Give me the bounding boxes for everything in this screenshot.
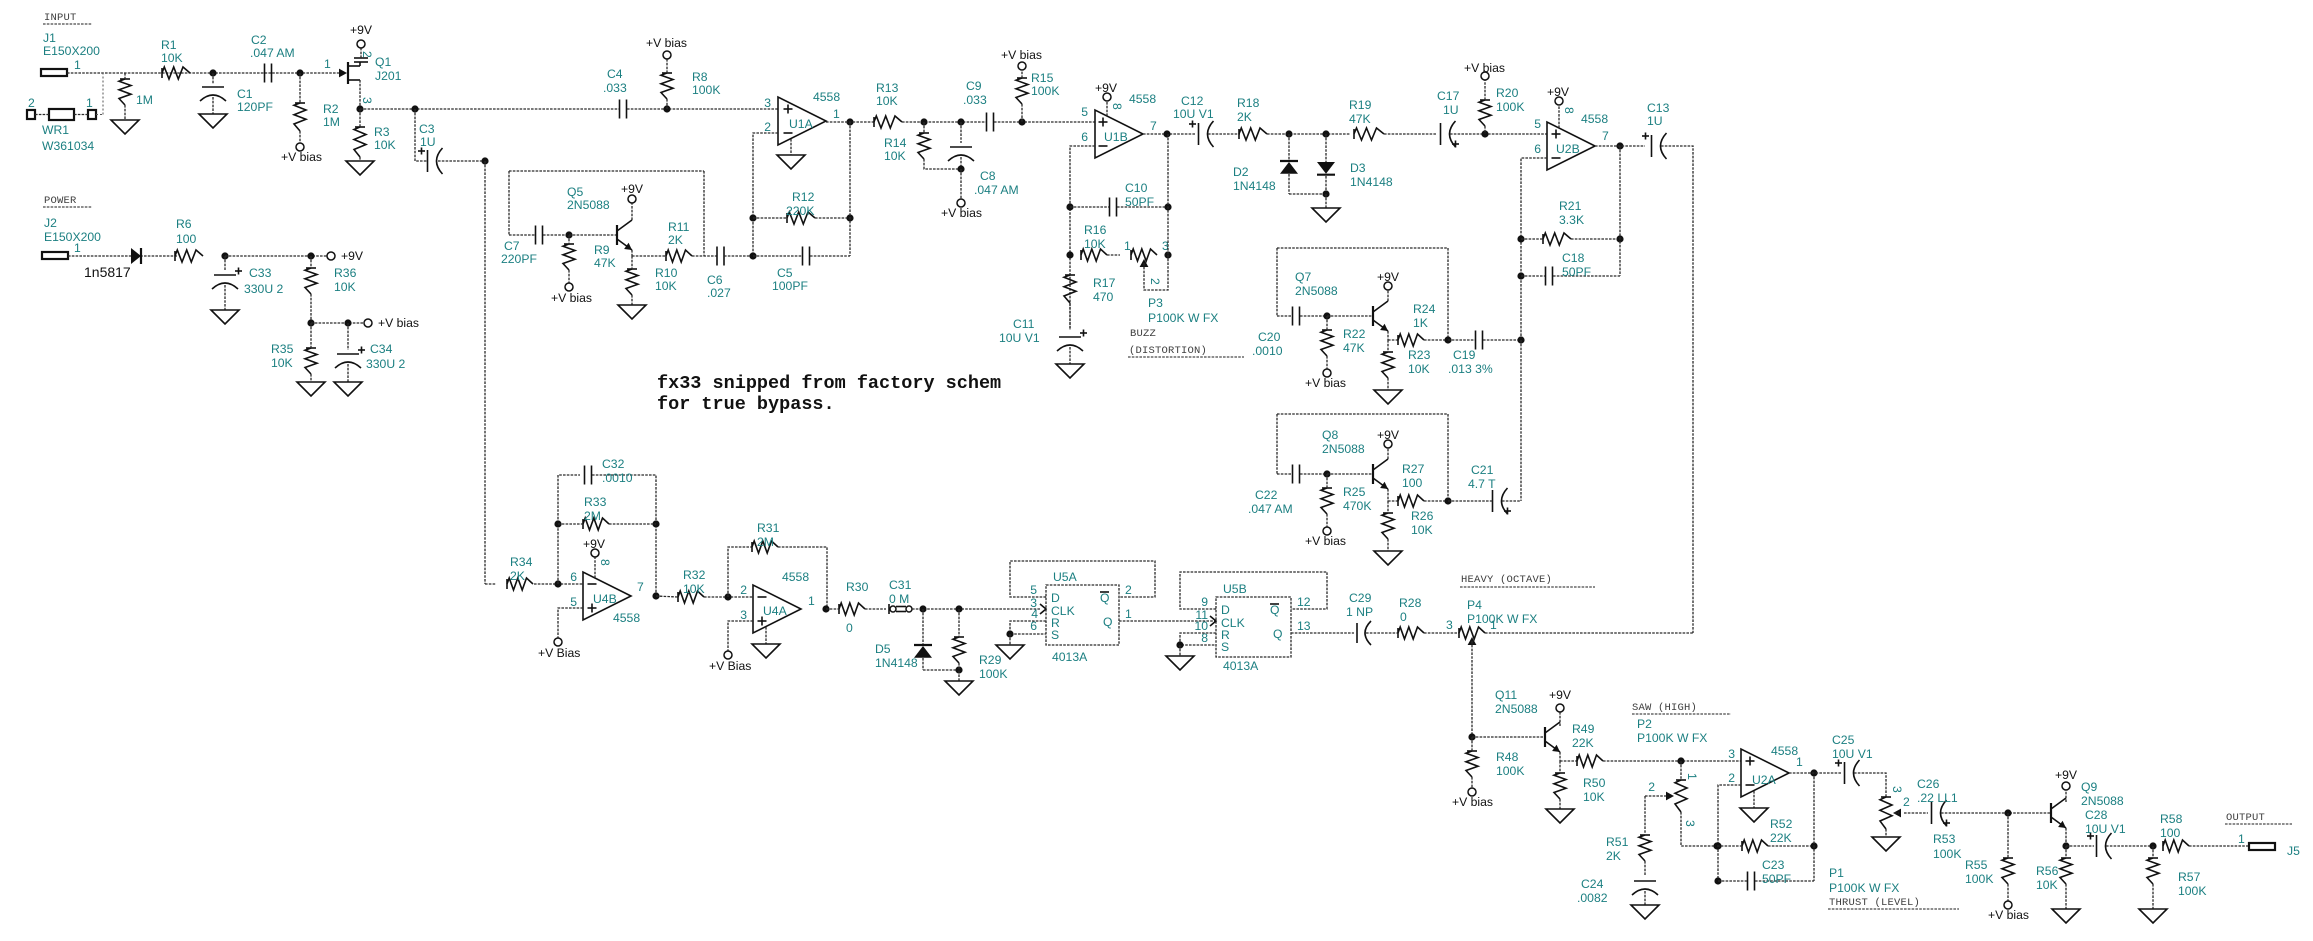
svg-text:+9V: +9V: [583, 537, 606, 551]
svg-text:7: 7: [1150, 119, 1157, 133]
svg-text:C9: C9: [966, 79, 982, 93]
svg-text:3: 3: [1890, 786, 1904, 793]
svg-text:R58: R58: [2160, 812, 2183, 826]
svg-text:3.3K: 3.3K: [1559, 213, 1584, 227]
svg-text:100K: 100K: [692, 83, 720, 97]
svg-text:10K: 10K: [1408, 362, 1430, 376]
svg-text:R2: R2: [323, 102, 339, 116]
svg-text:1n5817: 1n5817: [84, 264, 131, 280]
svg-text:2K: 2K: [1237, 110, 1252, 124]
svg-text:0: 0: [1400, 610, 1407, 624]
svg-text:4558: 4558: [1129, 92, 1156, 106]
svg-text:R29: R29: [979, 653, 1002, 667]
svg-text:+9V: +9V: [1095, 81, 1118, 95]
svg-text:C11: C11: [1013, 317, 1035, 331]
svg-text:C7: C7: [504, 239, 520, 253]
svg-text:R20: R20: [1496, 86, 1519, 100]
svg-text:Q9: Q9: [2081, 780, 2097, 794]
svg-text:for true bypass.: for true bypass.: [657, 394, 835, 415]
svg-text:100K: 100K: [1933, 847, 1961, 861]
svg-text:.22 LL1: .22 LL1: [1917, 791, 1958, 805]
svg-text:P4: P4: [1467, 598, 1482, 612]
svg-text:330U 2: 330U 2: [244, 282, 284, 296]
svg-text:R27: R27: [1402, 462, 1425, 476]
svg-text:1: 1: [86, 96, 93, 110]
svg-text:C8: C8: [980, 169, 996, 183]
svg-text:R34: R34: [510, 555, 533, 569]
svg-text:9: 9: [1201, 595, 1208, 609]
svg-text:+V bias: +V bias: [1001, 48, 1042, 62]
svg-text:1: 1: [1125, 607, 1132, 621]
svg-text:22K: 22K: [1572, 736, 1594, 750]
svg-text:4558: 4558: [813, 90, 840, 104]
svg-text:R8: R8: [692, 70, 708, 84]
svg-text:R3: R3: [374, 125, 390, 139]
svg-text:12: 12: [1297, 595, 1311, 609]
svg-text:U1A: U1A: [789, 117, 814, 131]
svg-text:+V bias: +V bias: [1305, 534, 1346, 548]
svg-text:4558: 4558: [1771, 744, 1798, 758]
svg-text:2: 2: [1648, 780, 1655, 794]
svg-text:10K: 10K: [334, 280, 356, 294]
svg-text:10K: 10K: [683, 582, 705, 596]
svg-text:U4B: U4B: [593, 592, 617, 606]
svg-text:C5: C5: [777, 266, 793, 280]
svg-text:.0010: .0010: [1252, 344, 1283, 358]
svg-text:HEAVY (OCTAVE): HEAVY (OCTAVE): [1461, 574, 1552, 586]
svg-text:R26: R26: [1411, 509, 1434, 523]
svg-text:SAW (HIGH): SAW (HIGH): [1632, 702, 1697, 714]
svg-text:+V Bias: +V Bias: [709, 659, 751, 673]
svg-text:100K: 100K: [1965, 872, 1993, 886]
svg-text:8: 8: [1562, 107, 1576, 114]
svg-text:D2: D2: [1233, 165, 1249, 179]
svg-text:47K: 47K: [1343, 341, 1365, 355]
svg-text:R53: R53: [1933, 832, 1956, 846]
svg-text:10K: 10K: [1583, 790, 1605, 804]
svg-text:47K: 47K: [1349, 112, 1371, 126]
svg-text:1U: 1U: [1443, 103, 1459, 117]
svg-text:C3: C3: [419, 122, 435, 136]
svg-text:P100K W FX: P100K W FX: [1467, 612, 1537, 626]
svg-text:P100K W FX: P100K W FX: [1148, 311, 1218, 325]
svg-text:+9V: +9V: [350, 23, 373, 37]
svg-text:.047 AM: .047 AM: [974, 183, 1019, 197]
svg-text:4558: 4558: [1581, 112, 1608, 126]
svg-text:R56: R56: [2036, 864, 2059, 878]
svg-text:C24: C24: [1581, 877, 1604, 891]
svg-text:10K: 10K: [2036, 878, 2058, 892]
svg-text:C12: C12: [1181, 94, 1204, 108]
svg-text:2: 2: [740, 583, 747, 597]
svg-text:10K: 10K: [161, 51, 183, 65]
svg-text:1N4148: 1N4148: [1350, 175, 1393, 189]
svg-text:10U V1: 10U V1: [999, 331, 1040, 345]
svg-text:fx33 snipped from factory sche: fx33 snipped from factory schem: [657, 373, 1001, 394]
svg-text:J5: J5: [2287, 844, 2300, 858]
svg-text:1M: 1M: [323, 115, 340, 129]
svg-text:C18: C18: [1562, 251, 1585, 265]
svg-text:.033: .033: [963, 93, 987, 107]
svg-text:D: D: [1221, 603, 1230, 617]
svg-text:R57: R57: [2178, 870, 2201, 884]
svg-text:R16: R16: [1084, 223, 1107, 237]
svg-text:+V bias: +V bias: [1464, 61, 1505, 75]
svg-text:THRUST (LEVEL): THRUST (LEVEL): [1829, 897, 1920, 909]
svg-text:2N5088: 2N5088: [2081, 794, 2124, 808]
svg-text:1: 1: [833, 107, 840, 121]
svg-text:220K: 220K: [786, 204, 814, 218]
svg-text:D: D: [1051, 591, 1060, 605]
svg-text:3: 3: [1683, 820, 1697, 827]
svg-text:100: 100: [2160, 826, 2181, 840]
svg-text:U2A: U2A: [1752, 773, 1777, 787]
svg-text:8: 8: [1110, 103, 1124, 110]
svg-text:5: 5: [1030, 583, 1037, 597]
svg-text:C4: C4: [607, 67, 623, 81]
svg-text:3: 3: [740, 608, 747, 622]
svg-text:4013A: 4013A: [1223, 659, 1259, 673]
svg-text:R14: R14: [884, 136, 907, 150]
svg-text:C20: C20: [1258, 330, 1281, 344]
svg-text:C31: C31: [889, 578, 912, 592]
svg-text:50PF: 50PF: [1562, 265, 1591, 279]
svg-text:1N4148: 1N4148: [875, 656, 918, 670]
svg-text:2N5088: 2N5088: [1495, 702, 1538, 716]
svg-text:2: 2: [360, 51, 374, 58]
svg-text:J201: J201: [375, 69, 402, 83]
svg-text:J1: J1: [43, 31, 56, 45]
svg-text:.047 AM: .047 AM: [1248, 502, 1293, 516]
svg-text:50PF: 50PF: [1125, 195, 1154, 209]
svg-text:R19: R19: [1349, 98, 1372, 112]
svg-text:+9V: +9V: [1547, 85, 1570, 99]
svg-text:R15: R15: [1031, 71, 1054, 85]
svg-text:C29: C29: [1349, 591, 1372, 605]
svg-text:+V bias: +V bias: [1305, 376, 1346, 390]
svg-text:R28: R28: [1399, 596, 1422, 610]
svg-text:1K: 1K: [1413, 316, 1428, 330]
svg-text:2N5088: 2N5088: [1322, 442, 1365, 456]
svg-text:R10: R10: [655, 266, 678, 280]
svg-text:R30: R30: [846, 580, 869, 594]
svg-text:R51: R51: [1606, 835, 1629, 849]
svg-text:C1: C1: [237, 87, 253, 101]
svg-text:4.7 T: 4.7 T: [1468, 477, 1496, 491]
svg-text:C13: C13: [1647, 101, 1670, 115]
svg-text:R13: R13: [876, 81, 899, 95]
svg-text:R11: R11: [668, 220, 690, 234]
svg-text:C21: C21: [1471, 463, 1494, 477]
svg-text:R6: R6: [176, 217, 192, 231]
svg-text:8: 8: [598, 559, 612, 566]
svg-text:C22: C22: [1255, 488, 1278, 502]
svg-text:U5B: U5B: [1223, 582, 1247, 596]
svg-text:J2: J2: [44, 216, 57, 230]
svg-text:R23: R23: [1408, 348, 1431, 362]
svg-text:1U: 1U: [1647, 114, 1663, 128]
svg-text:2: 2: [1125, 583, 1132, 597]
svg-text:+V bias: +V bias: [1988, 908, 2029, 922]
svg-text:+V bias: +V bias: [646, 36, 687, 50]
svg-text:100K: 100K: [1496, 764, 1524, 778]
svg-text:C26: C26: [1917, 777, 1940, 791]
svg-text:1: 1: [1796, 755, 1803, 769]
svg-text:R9: R9: [594, 243, 610, 257]
svg-text:D5: D5: [875, 642, 891, 656]
svg-text:C25: C25: [1832, 733, 1855, 747]
svg-text:R17: R17: [1093, 276, 1116, 290]
svg-text:+V bias: +V bias: [281, 150, 322, 164]
svg-text:R49: R49: [1572, 722, 1595, 736]
svg-text:+V bias: +V bias: [378, 316, 419, 330]
svg-text:1N4148: 1N4148: [1233, 179, 1276, 193]
svg-text:C28: C28: [2085, 808, 2108, 822]
svg-text:OUTPUT: OUTPUT: [2226, 812, 2265, 824]
svg-text:6: 6: [570, 570, 577, 584]
svg-text:1: 1: [1685, 773, 1699, 780]
svg-text:+9V: +9V: [1377, 428, 1400, 442]
svg-text:6: 6: [1534, 142, 1541, 156]
svg-text:2: 2: [764, 120, 771, 134]
svg-text:7: 7: [1602, 129, 1609, 143]
svg-text:U2B: U2B: [1556, 142, 1580, 156]
svg-text:.013 3%: .013 3%: [1448, 362, 1493, 376]
svg-text:+9V: +9V: [621, 182, 644, 196]
svg-text:.027: .027: [707, 286, 731, 300]
svg-text:10U V1: 10U V1: [1832, 747, 1873, 761]
svg-text:+V Bias: +V Bias: [538, 646, 580, 660]
svg-text:330U 2: 330U 2: [366, 357, 406, 371]
svg-text:Q7: Q7: [1295, 270, 1311, 284]
svg-text:+V bias: +V bias: [1452, 795, 1493, 809]
svg-text:470: 470: [1093, 290, 1114, 304]
svg-text:10K: 10K: [655, 279, 677, 293]
svg-text:R22: R22: [1343, 327, 1366, 341]
svg-text:13: 13: [1297, 619, 1311, 633]
svg-text:10K: 10K: [876, 94, 898, 108]
svg-text:C23: C23: [1762, 858, 1785, 872]
svg-text:E150X200: E150X200: [43, 44, 100, 58]
svg-text:U1B: U1B: [1104, 130, 1128, 144]
svg-text:10K: 10K: [1411, 523, 1433, 537]
svg-text:R35: R35: [271, 342, 294, 356]
svg-text:+9V: +9V: [1549, 688, 1572, 702]
svg-text:+V bias: +V bias: [551, 291, 592, 305]
svg-text:100PF: 100PF: [772, 279, 808, 293]
svg-text:10K: 10K: [1084, 237, 1106, 251]
svg-text:S: S: [1221, 640, 1229, 654]
svg-text:P1: P1: [1829, 866, 1844, 880]
svg-text:E150X200: E150X200: [44, 230, 101, 244]
svg-text:1: 1: [74, 58, 81, 72]
svg-text:3: 3: [764, 96, 771, 110]
svg-text:C32: C32: [602, 457, 625, 471]
svg-text:R55: R55: [1965, 858, 1988, 872]
svg-text:W361034: W361034: [42, 139, 94, 153]
svg-text:1: 1: [324, 57, 331, 71]
svg-text:C10: C10: [1125, 181, 1148, 195]
svg-text:R31: R31: [757, 521, 780, 535]
svg-text:.047 AM: .047 AM: [250, 46, 295, 60]
svg-text:22K: 22K: [1770, 831, 1792, 845]
svg-text:C17: C17: [1437, 89, 1460, 103]
svg-text:7: 7: [637, 580, 644, 594]
svg-text:10U V1: 10U V1: [1173, 107, 1214, 121]
svg-text:1U: 1U: [420, 135, 436, 149]
svg-text:2: 2: [1148, 278, 1162, 285]
svg-text:100: 100: [1402, 476, 1423, 490]
svg-text:2N5088: 2N5088: [567, 198, 610, 212]
svg-text:2: 2: [1728, 771, 1735, 785]
svg-text:4013A: 4013A: [1052, 650, 1088, 664]
svg-text:R50: R50: [1583, 776, 1606, 790]
svg-text:U5A: U5A: [1053, 570, 1078, 584]
svg-text:1: 1: [1124, 239, 1131, 253]
svg-text:(DISTORTION): (DISTORTION): [1129, 345, 1207, 357]
svg-text:R33: R33: [584, 495, 607, 509]
svg-text:2K: 2K: [510, 569, 525, 583]
svg-text:C34: C34: [370, 342, 393, 356]
svg-text:5: 5: [1534, 117, 1541, 131]
svg-text:1M: 1M: [136, 93, 153, 107]
svg-text:100K: 100K: [979, 667, 1007, 681]
svg-text:3: 3: [1446, 618, 1453, 632]
svg-text:R48: R48: [1496, 750, 1519, 764]
svg-text:R24: R24: [1413, 302, 1436, 316]
svg-text:INPUT: INPUT: [44, 12, 77, 24]
svg-text:0: 0: [846, 621, 853, 635]
svg-text:C19: C19: [1453, 348, 1476, 362]
svg-text:220PF: 220PF: [501, 252, 537, 266]
svg-text:100K: 100K: [1496, 100, 1524, 114]
svg-text:100K: 100K: [2178, 884, 2206, 898]
svg-text:1: 1: [2238, 832, 2245, 846]
svg-text:R36: R36: [334, 266, 357, 280]
svg-text:R25: R25: [1343, 485, 1366, 499]
svg-text:P2: P2: [1637, 717, 1652, 731]
svg-text:3: 3: [1728, 747, 1735, 761]
svg-text:U4A: U4A: [763, 604, 788, 618]
svg-text:Q: Q: [1103, 615, 1112, 629]
svg-text:POWER: POWER: [44, 195, 77, 207]
svg-text:.0082: .0082: [1577, 891, 1608, 905]
svg-text:.033: .033: [603, 81, 627, 95]
svg-text:470K: 470K: [1343, 499, 1371, 513]
svg-text:P100K W FX: P100K W FX: [1829, 881, 1899, 895]
svg-text:4558: 4558: [613, 611, 640, 625]
svg-text:10U V1: 10U V1: [2085, 822, 2126, 836]
svg-text:1: 1: [808, 594, 815, 608]
svg-text:2M: 2M: [757, 535, 774, 549]
svg-text:47K: 47K: [594, 256, 616, 270]
svg-text:10K: 10K: [374, 138, 396, 152]
svg-text:4558: 4558: [782, 570, 809, 584]
svg-text:R32: R32: [683, 568, 706, 582]
svg-text:5: 5: [1081, 105, 1088, 119]
svg-text:1: 1: [74, 241, 81, 255]
svg-text:C2: C2: [251, 33, 267, 47]
svg-text:R21: R21: [1559, 199, 1582, 213]
svg-text:120PF: 120PF: [237, 100, 273, 114]
svg-text:2K: 2K: [668, 233, 683, 247]
svg-text:50PF: 50PF: [1762, 872, 1791, 886]
svg-text:P3: P3: [1148, 296, 1163, 310]
svg-text:2: 2: [28, 96, 35, 110]
svg-text:100K: 100K: [1031, 84, 1059, 98]
svg-text:Q: Q: [1273, 627, 1282, 641]
svg-text:Q: Q: [1100, 591, 1109, 605]
svg-text:+9V: +9V: [341, 249, 364, 263]
svg-text:+9V: +9V: [1377, 270, 1400, 284]
svg-text:BUZZ: BUZZ: [1130, 328, 1156, 340]
svg-text:P100K W FX: P100K W FX: [1637, 731, 1707, 745]
svg-text:R52: R52: [1770, 817, 1793, 831]
svg-text:100: 100: [176, 232, 197, 246]
svg-text:10K: 10K: [271, 356, 293, 370]
svg-text:2N5088: 2N5088: [1295, 284, 1338, 298]
svg-text:C6: C6: [707, 273, 723, 287]
svg-text:Q8: Q8: [1322, 428, 1338, 442]
svg-text:R18: R18: [1237, 96, 1260, 110]
svg-text:WR1: WR1: [42, 123, 69, 137]
svg-text:0 M: 0 M: [889, 592, 909, 606]
svg-text:2: 2: [1903, 795, 1910, 809]
svg-text:5: 5: [570, 595, 577, 609]
svg-text:Q: Q: [1270, 603, 1279, 617]
svg-text:S: S: [1051, 628, 1059, 642]
svg-text:C33: C33: [249, 266, 272, 280]
svg-text:R12: R12: [792, 190, 815, 204]
svg-text:Q11: Q11: [1495, 688, 1517, 702]
svg-text:+V bias: +V bias: [941, 206, 982, 220]
svg-text:1 NP: 1 NP: [1346, 605, 1373, 619]
svg-text:Q1: Q1: [375, 55, 391, 69]
svg-text:D3: D3: [1350, 161, 1366, 175]
svg-text:R1: R1: [161, 38, 177, 52]
svg-text:.0010: .0010: [602, 471, 633, 485]
svg-text:2K: 2K: [1606, 849, 1621, 863]
svg-text:3: 3: [360, 97, 374, 104]
svg-text:2M: 2M: [584, 509, 601, 523]
svg-text:10K: 10K: [884, 149, 906, 163]
svg-text:6: 6: [1081, 130, 1088, 144]
svg-text:Q5: Q5: [567, 185, 583, 199]
svg-text:+9V: +9V: [2055, 768, 2078, 782]
